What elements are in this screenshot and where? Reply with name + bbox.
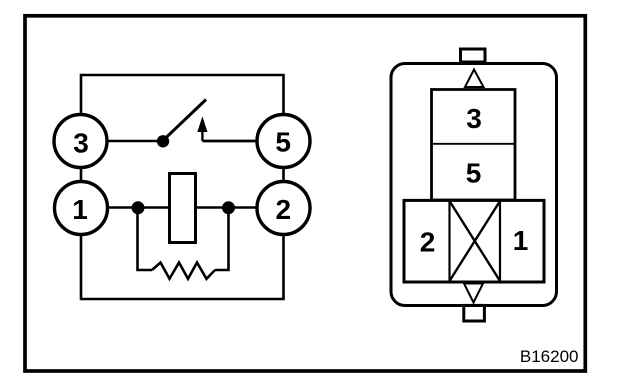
terminal 2 bbox=[257, 182, 310, 235]
keyway cross X bbox=[450, 201, 501, 281]
svg-text:5: 5 bbox=[275, 127, 291, 158]
terminal block pins 3/5 bbox=[432, 90, 516, 201]
svg-text:2: 2 bbox=[276, 194, 292, 225]
svg-text:1: 1 bbox=[513, 225, 529, 256]
junction node B (right dot) bbox=[222, 201, 235, 214]
wire: bottom bus terminal 1 to terminal 2 bbox=[81, 234, 284, 299]
switch actuation arrow bbox=[197, 116, 207, 141]
junction node A (left dot) bbox=[132, 201, 145, 214]
switch blade (movable contact) bbox=[163, 100, 206, 141]
svg-text:3: 3 bbox=[466, 103, 482, 134]
divider between pin 3 and pin 5 bbox=[432, 143, 516, 145]
orientation arrow top (hollow) bbox=[465, 70, 484, 88]
svg-text:2: 2 bbox=[420, 226, 436, 257]
connector housing outline bbox=[391, 64, 557, 306]
svg-text:3: 3 bbox=[73, 127, 89, 158]
svg-text:1: 1 bbox=[72, 194, 88, 225]
wire: top bus terminal 3 to terminal 5 bbox=[81, 75, 284, 114]
svg-text:B16200: B16200 bbox=[520, 347, 579, 366]
switch pivot junction bbox=[157, 135, 169, 147]
wire: terminal 3 to terminal 1 bbox=[80, 168, 83, 182]
svg-text:5: 5 bbox=[466, 158, 482, 189]
relay coil bbox=[170, 174, 196, 243]
wire: terminal 1 to coil bbox=[109, 206, 170, 209]
wire: resistor to node B bbox=[215, 208, 229, 271]
wire: node A down to resistor bbox=[138, 208, 153, 271]
terminal 3 bbox=[54, 115, 107, 168]
top mounting tab bbox=[461, 49, 486, 62]
terminal 5 bbox=[257, 115, 310, 168]
terminal 1 bbox=[55, 182, 108, 235]
divider left of keyway bbox=[448, 200, 450, 282]
bottom mounting tab bbox=[464, 305, 485, 321]
terminal block pins 2/1 bbox=[404, 200, 544, 282]
wire: coil to terminal 2 bbox=[195, 206, 256, 209]
wire: terminal 5 to terminal 2 bbox=[282, 168, 285, 182]
resistor R (zigzag) bbox=[152, 263, 215, 279]
divider right of keyway bbox=[499, 200, 501, 282]
wire: terminal 3 to switch pivot bbox=[109, 140, 164, 143]
orientation arrow bottom (hollow) bbox=[464, 284, 483, 303]
wire: switch arrow to terminal 5 bbox=[202, 140, 256, 143]
